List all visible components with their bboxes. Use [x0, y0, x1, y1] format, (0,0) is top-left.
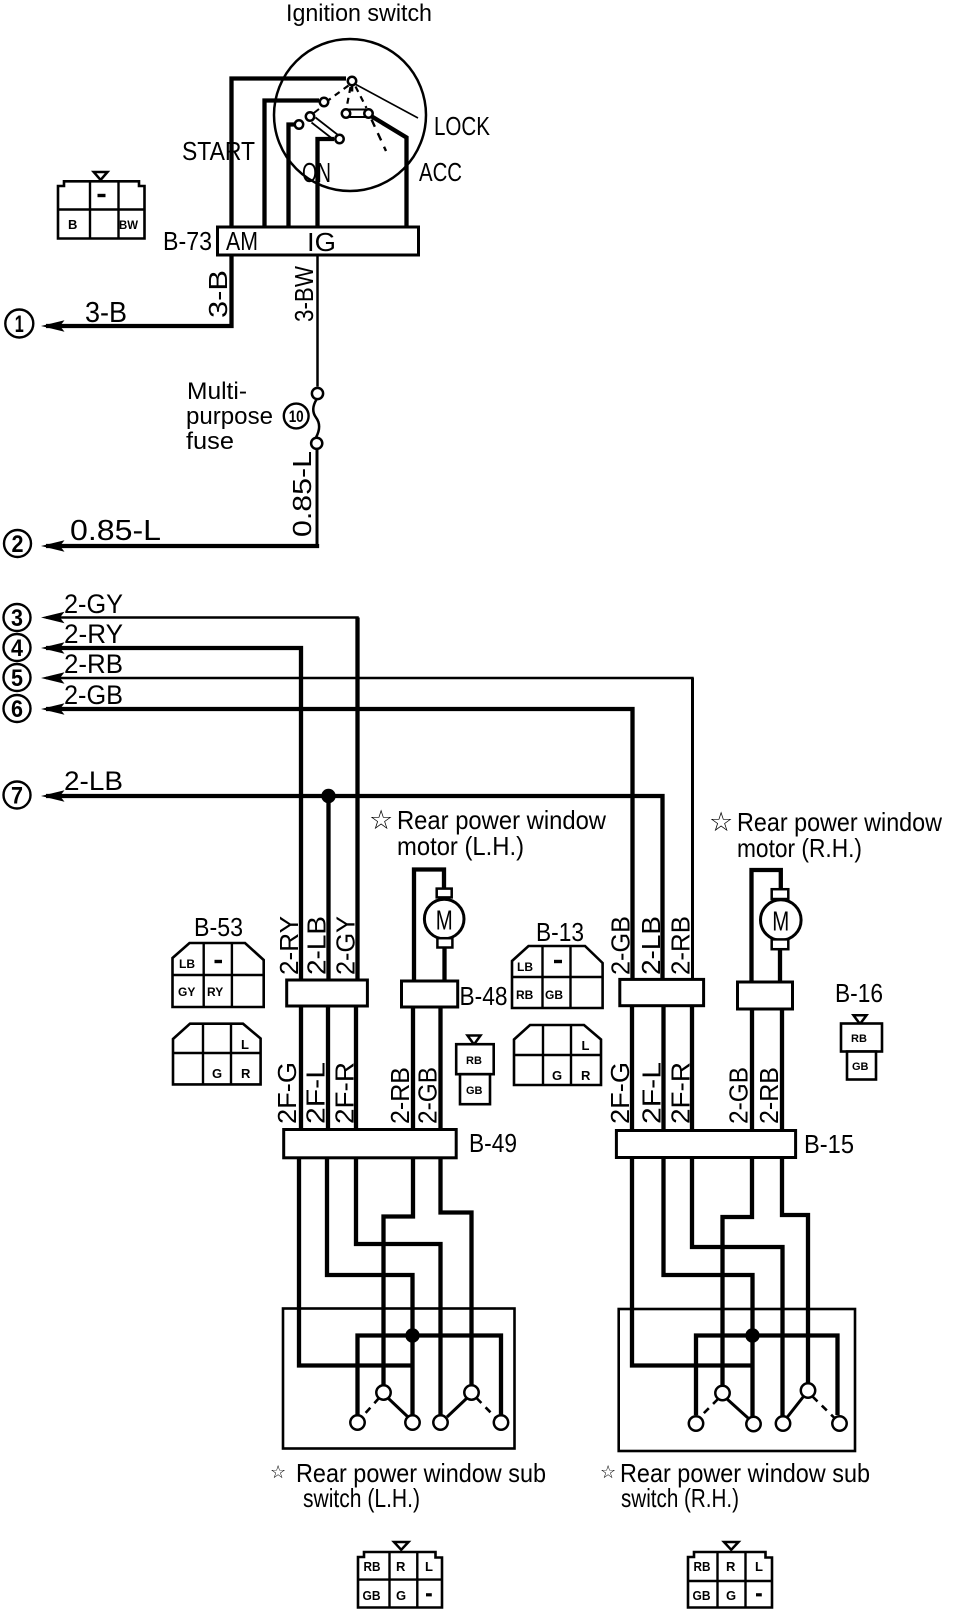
svg-text:2-RB: 2-RB [385, 1067, 415, 1124]
connector B-13 level box left [620, 979, 704, 1005]
bus bar LH [358, 1336, 502, 1416]
svg-text:R: R [396, 1559, 406, 1574]
connector B-13 outline [512, 946, 603, 1008]
svg-text:5: 5 [11, 665, 23, 692]
svg-text:2-LB: 2-LB [636, 916, 666, 975]
rocker RH-left bl contact [689, 1416, 703, 1430]
svg-text:GB: GB [363, 1588, 381, 1603]
rocker RH-right apex contact [801, 1383, 815, 1397]
riser LH [410, 1336, 414, 1416]
rocker RH-right dashed arm [813, 1397, 835, 1418]
motor LH bottom terminal [437, 938, 452, 947]
connector KL grid [358, 1552, 442, 1608]
svg-text:RY: RY [207, 985, 223, 999]
svg-text:2-GB: 2-GB [606, 916, 636, 975]
rocker LH-left br contact [405, 1415, 419, 1429]
ignition switch body circle [274, 39, 426, 191]
junction dot 2-LB [321, 789, 335, 803]
rotor contact bar [312, 118, 339, 141]
svg-text:Multi-: Multi- [187, 378, 247, 405]
svg-text:G: G [726, 1588, 736, 1603]
connector K1 triangle marker [94, 172, 108, 180]
wire 2F-L RH [664, 1158, 753, 1329]
fuse element squiggle [313, 400, 319, 438]
connector KL outline [358, 1552, 442, 1608]
connector K3 outline [173, 1024, 261, 1085]
rotor bar tail [313, 109, 320, 114]
svg-text:B: B [68, 217, 77, 232]
connector K3 grid [173, 1024, 261, 1085]
sub switch RH box [619, 1309, 855, 1451]
svg-text:RB: RB [851, 1033, 867, 1045]
connector B-15 box [616, 1131, 795, 1158]
dashed linkage to START contact [328, 86, 349, 101]
rocker RH-left apex contact [715, 1386, 729, 1400]
svg-text:G: G [552, 1068, 562, 1083]
wire 2F-G RH [632, 1158, 753, 1366]
rocker RH-left dashed arm [700, 1399, 718, 1417]
contact stem [351, 85, 354, 92]
riser RH [750, 1336, 754, 1417]
contact third [295, 120, 303, 128]
terminal circle 5 [4, 664, 31, 691]
wire 2-RY line4 [46, 648, 301, 980]
wire 2-GB LH [441, 1158, 472, 1386]
svg-text:GB: GB [545, 988, 563, 1002]
terminal circle 2 [4, 530, 31, 557]
svg-text:Ignition switch: Ignition switch [286, 0, 432, 27]
wire IG down to fuse [316, 255, 319, 387]
svg-text:7: 7 [11, 783, 23, 810]
fuse top terminal [312, 388, 323, 399]
junction dot LH [405, 1328, 419, 1342]
svg-text:G: G [212, 1066, 222, 1081]
connector B-53 outline [173, 943, 264, 1007]
wire 2-LB branch down [326, 796, 330, 980]
svg-text:B-16: B-16 [835, 978, 883, 1008]
svg-text:BW: BW [119, 218, 139, 232]
motor LH body [424, 899, 464, 939]
rocker LH-right dashed arm [477, 1398, 496, 1417]
svg-text:L: L [425, 1559, 433, 1574]
B-53 pin dash [215, 960, 223, 963]
svg-text:START: START [182, 136, 255, 166]
connector B-53 grid [173, 943, 264, 1007]
svg-text:R: R [726, 1559, 736, 1574]
svg-text:2F-L: 2F-L [301, 1062, 331, 1124]
svg-text:2F-R: 2F-R [666, 1062, 696, 1124]
svg-text:M: M [436, 905, 453, 936]
dashed linkage to LOCK bar left [347, 87, 351, 108]
svg-text:2-GB: 2-GB [724, 1067, 754, 1124]
rocker LH-left dashed arm [362, 1398, 379, 1417]
connector B-16 triangle [854, 1015, 867, 1024]
arrowhead 3 [41, 612, 65, 624]
rocker RH-right bl contact [776, 1416, 790, 1430]
wires B-48 to B-49 [301, 1006, 356, 1130]
dashed linkage acc [372, 120, 387, 152]
svg-text:LB: LB [517, 960, 533, 974]
svg-text:0.85-L: 0.85-L [287, 451, 317, 537]
wire 0.85-L to arrow 2 [316, 449, 319, 546]
connector KR outline [688, 1552, 772, 1608]
dashed linkage to LOCK bar right [356, 87, 367, 109]
svg-text:2-RB: 2-RB [754, 1067, 784, 1124]
rocker LH-right apex contact [464, 1385, 478, 1399]
motor RH body [761, 900, 802, 941]
svg-text:2-GB: 2-GB [413, 1067, 443, 1124]
wire 2-RB LH [384, 1158, 414, 1386]
svg-text:2F-L: 2F-L [637, 1062, 667, 1124]
wire 2-GB RH [723, 1158, 753, 1386]
rocker LH-right bl contact [433, 1415, 447, 1429]
svg-text:RB: RB [466, 1055, 482, 1067]
wire 2F-R LH [356, 1158, 441, 1416]
svg-text:6: 6 [11, 696, 23, 723]
svg-text:3: 3 [11, 605, 23, 632]
svg-text:L: L [582, 1038, 590, 1053]
svg-text:10: 10 [289, 407, 304, 426]
wire contact3 to B-73 [289, 125, 297, 228]
connector B-13 grid [512, 946, 603, 1008]
svg-text:☆: ☆ [709, 807, 733, 837]
svg-text:switch (L.H.): switch (L.H.) [303, 1483, 420, 1513]
connector K2 upper box RB [456, 1044, 494, 1074]
svg-text:RB: RB [694, 1559, 711, 1574]
connector K2 lower box GB [460, 1074, 490, 1104]
svg-text:☆: ☆ [270, 1462, 286, 1482]
rocker LH-left bl contact [350, 1415, 364, 1429]
connector B-13 level box right [738, 982, 793, 1009]
wire 2-RB line5 [46, 678, 693, 980]
arrowhead 1 [41, 320, 65, 332]
connector B-73 box [218, 227, 419, 255]
motor RH left wire [752, 870, 781, 982]
contact lock-a [342, 109, 350, 117]
svg-text:3-B: 3-B [85, 297, 127, 329]
motor RH bottom wire [778, 949, 782, 982]
svg-text:purpose: purpose [186, 403, 273, 430]
svg-text:2: 2 [12, 531, 24, 558]
connector K4 grid [514, 1025, 601, 1085]
connector K1 (B/BW) outline [58, 181, 145, 238]
svg-text:2-RY: 2-RY [274, 916, 304, 975]
svg-text:GY: GY [178, 985, 195, 999]
svg-text:ACC: ACC [419, 157, 462, 187]
svg-text:B-13: B-13 [536, 917, 584, 947]
arrowhead 7 [41, 790, 65, 802]
wire ON to IG [318, 139, 335, 227]
wire 2-RB RH [782, 1158, 808, 1384]
svg-text:B-48: B-48 [460, 981, 508, 1011]
KR pin dash [756, 1593, 762, 1596]
connector B-48 box left [287, 980, 368, 1006]
connector B-48 box right [402, 981, 458, 1007]
svg-text:LB: LB [179, 957, 195, 971]
svg-text:G: G [396, 1588, 406, 1603]
svg-text:2-RB: 2-RB [666, 916, 696, 975]
svg-text:2F-R: 2F-R [330, 1062, 360, 1124]
rocker LH-right br contact [494, 1415, 508, 1429]
fuse bottom terminal [311, 438, 322, 449]
arrowhead 6 [41, 703, 65, 715]
arrowhead 4 [41, 642, 65, 654]
wire 3-B from AM to arrow 1 [46, 255, 232, 326]
fixed contact bar LOCK [348, 110, 370, 118]
rocker LH-left solid arm [388, 1398, 408, 1417]
svg-text:4: 4 [11, 635, 24, 662]
svg-text:IG: IG [307, 227, 336, 257]
terminal circle 6 [4, 695, 31, 722]
svg-text:2-RB: 2-RB [64, 649, 123, 679]
svg-text:R: R [581, 1068, 591, 1083]
svg-text:GB: GB [693, 1588, 711, 1603]
rocker RH-left br contact [746, 1417, 760, 1431]
svg-text:☆: ☆ [600, 1462, 616, 1482]
svg-text:2F-G: 2F-G [605, 1062, 635, 1124]
svg-text:L: L [755, 1559, 763, 1574]
svg-text:2-LB: 2-LB [64, 766, 123, 796]
connector K4 outline [514, 1025, 601, 1085]
svg-text:GB: GB [466, 1085, 483, 1097]
rocker LH-left apex contact [376, 1385, 390, 1399]
KL pin dash [426, 1593, 432, 1596]
motor RH top terminal [772, 889, 789, 899]
svg-text:switch (R.H.): switch (R.H.) [621, 1483, 739, 1513]
terminal circle 1 [5, 310, 33, 338]
svg-text:2F-G: 2F-G [272, 1062, 302, 1124]
wire 2-GY line3 [46, 618, 358, 981]
svg-text:motor (L.H.): motor (L.H.) [397, 831, 524, 861]
wire 2F-G LH [299, 1158, 413, 1366]
connector B-16 upper box RB [841, 1024, 882, 1052]
connector KL triangle [394, 1542, 409, 1550]
motor LH top terminal [437, 889, 452, 898]
arrowhead 5 [41, 672, 65, 684]
svg-text:L: L [241, 1037, 249, 1052]
wire 2-LB line7 [46, 796, 663, 980]
connector K2 triangle [468, 1036, 481, 1045]
motor RH bottom terminal [772, 939, 789, 949]
wire ACC to B-73 [371, 116, 407, 227]
svg-text:2-GY: 2-GY [64, 589, 123, 619]
svg-text:R: R [241, 1066, 251, 1081]
wires B-13 boxes to B-15 [632, 1006, 692, 1131]
svg-text:3-BW: 3-BW [289, 266, 319, 322]
contact on [335, 135, 343, 143]
connector B-49 box [284, 1130, 457, 1158]
contact top [348, 77, 356, 85]
svg-text:B-15: B-15 [804, 1129, 854, 1159]
connector KR triangle [724, 1542, 739, 1550]
contact bar-left [306, 112, 314, 120]
svg-text:1: 1 [15, 311, 24, 338]
rocker LH-right solid arm [447, 1398, 467, 1417]
svg-text:3-B: 3-B [203, 270, 233, 318]
connector B-16 lower box GB [847, 1052, 876, 1080]
svg-text:2-LB: 2-LB [302, 916, 332, 975]
svg-text:RB: RB [516, 988, 534, 1002]
K1 pin dash [98, 194, 106, 197]
wire 2-GB line6 [46, 709, 633, 980]
svg-text:ON: ON [302, 157, 331, 188]
wire 2F-R RH [692, 1158, 783, 1416]
wire START to AM [232, 79, 347, 228]
sub switch LH box [283, 1309, 515, 1449]
motor LH bottom wire [442, 948, 446, 982]
fuse number 10 circle [284, 404, 309, 429]
svg-text:fuse: fuse [186, 428, 234, 455]
svg-text:0.85-L: 0.85-L [70, 515, 161, 547]
svg-text:AM: AM [226, 226, 258, 256]
svg-text:☆: ☆ [369, 805, 393, 835]
contact lock-b [364, 109, 372, 117]
rocker RH-right solid arm [787, 1397, 804, 1418]
rocker RH-right br contact [832, 1416, 846, 1430]
svg-text:2-GY: 2-GY [331, 916, 361, 975]
svg-text:GB: GB [852, 1061, 869, 1073]
svg-text:B-53: B-53 [194, 912, 243, 942]
wire contact2 to B-73 [265, 101, 320, 228]
svg-text:motor (R.H.): motor (R.H.) [737, 833, 862, 863]
svg-text:B-49: B-49 [469, 1128, 517, 1158]
wire 2F-L LH [327, 1158, 413, 1329]
bus bar RH [696, 1336, 838, 1416]
junction dot RH [745, 1328, 759, 1342]
svg-text:2-GB: 2-GB [64, 680, 123, 710]
terminal circle 7 [4, 782, 31, 809]
svg-text:B-73: B-73 [163, 226, 212, 256]
svg-text:LOCK: LOCK [434, 111, 491, 141]
svg-text:2-RY: 2-RY [64, 619, 123, 649]
svg-text:RB: RB [364, 1559, 381, 1574]
rocker RH-left solid arm [727, 1399, 748, 1418]
B-13 pin dash [554, 960, 562, 963]
pointer line to LOCK [355, 84, 418, 118]
motor LH left wire [414, 870, 444, 982]
terminal circle 4 [4, 634, 31, 661]
svg-text:M: M [772, 906, 789, 937]
arrowhead 2 [41, 540, 65, 552]
contact start [320, 98, 328, 106]
connector K1 grid [58, 181, 145, 238]
terminal circle 3 [4, 604, 31, 631]
connector KR grid [688, 1552, 772, 1608]
